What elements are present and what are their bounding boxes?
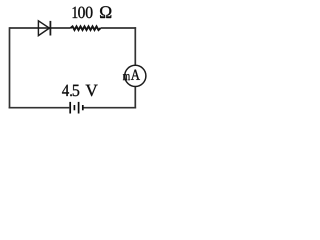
wire: top run from top-left corner to resistor [10, 27, 71, 29]
wire: bottom run from battery to bottom-right corner [84, 107, 137, 109]
wire: top run from resistor to top-right corner [101, 27, 137, 29]
resistor R1 zigzag [71, 26, 101, 30]
wire: right side below ammeter [134, 87, 136, 109]
ammeter M1 circle [125, 65, 146, 86]
battery value label 4.5 V [62, 85, 97, 97]
resistor value label 100 Ohm [73, 6, 112, 18]
wire: left side [9, 27, 11, 108]
wire: bottom run from bottom-left corner to battery [9, 107, 70, 109]
battery B1 plates (long short long short) [70, 102, 83, 114]
wire: right side above ammeter [134, 27, 136, 65]
diode D1 (anode left, cathode bar right) [38, 21, 50, 36]
ammeter label mA [123, 70, 140, 80]
